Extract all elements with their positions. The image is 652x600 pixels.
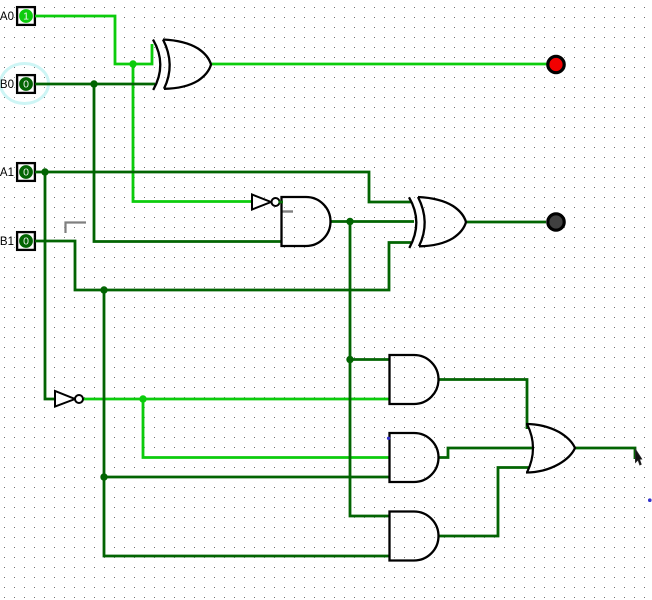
svg-text:0: 0 [23,236,29,248]
unconnected grey input leg on AND U3 [282,210,293,212]
wire branch B0 down to AND U3 bottom input (value 0) [94,84,281,242]
OR gate U9 (carry out) [526,424,575,473]
junction (45,172) [41,168,48,175]
wire A1 to XOR U4 top input (value 0) [35,172,411,202]
junction (350,359.5) [346,356,353,363]
wire AND U6 output to OR U9 middle input (value 0) [438,448,533,458]
svg-text:B0: B0 [0,79,14,91]
wire to AND U6 bottom input (value 0) [104,476,390,479]
wire AND U7 output to OR U9 bottom input (value 0) [438,468,529,537]
wire branch A1 down to NOT U8 input (value 0) [45,172,56,399]
AND gate U5 [390,355,439,404]
unconnected grey wire stub near B1 [66,223,87,234]
selection halo around pin B0 [1,64,49,104]
XOR gate U1 (half-adder sum) [153,40,211,91]
wire A0 to XOR U1 top input (value 1) [35,16,152,64]
input pin B0 [0,75,35,93]
wire AND U5 output to OR U9 top input (value 0) [438,380,527,430]
AND gate U7 [390,512,439,561]
wire OR U9 output (value 0) [575,448,635,459]
wire branch B1 down to AND U7 bottom input (value 0) [104,290,390,556]
LED S0 (lit, red) [548,56,564,72]
junction (104,477) [100,473,107,480]
svg-text:B1: B1 [0,236,14,248]
junction (133,64) [129,60,136,67]
wire branch AND U3 output down to AND U7 top input (value 0) [350,222,390,517]
AND gate U6 [390,433,439,482]
input pin A1 [0,163,35,181]
svg-text:A1: A1 [0,167,14,179]
junction (104,290) [100,286,107,293]
NOT gate U8 (inverter on A1 branch) [55,391,83,407]
wire branch A0 down to NOT U2 input (value 1) [133,64,252,202]
input pin B1 [0,232,35,250]
wire B0 to XOR U1 bottom input (value 0) [35,83,155,86]
svg-text:A0: A0 [0,11,14,23]
unconnected blue dot right edge [648,498,652,502]
mouse cursor arrow [635,449,642,465]
junction (143,399) [139,395,146,402]
input pin A0 [0,7,35,25]
unconnected input dot on AND U6 [387,437,390,440]
wire XOR U1 output to LED S0 (value 1) [210,63,547,66]
svg-text:1: 1 [23,11,29,23]
svg-text:0: 0 [23,79,29,91]
XOR gate U4 (sum bit S1) [409,197,466,248]
junction (94,84) [90,80,97,87]
svg-text:0: 0 [23,167,29,179]
wire branch down to AND U6 middle input (value 1) [143,399,389,458]
AND gate U3 [282,197,331,246]
LED S1 (off, dark) [548,214,564,230]
NOT gate U2 (inverter before AND U3) [252,195,280,210]
wire B1 to XOR U4 bottom input (value 0) [35,241,411,290]
wire branch to AND U5 top input (value 0) [350,358,390,361]
wire stub NOT U2 output to AND U3 top input (value 0) [279,201,284,204]
wire NOT U8 output to AND U5 lower input (value 1) [83,398,390,401]
wire XOR U4 output to LED S1 (value 0) [466,221,546,224]
wire AND U3 output to XOR U4 middle input (value 0) [330,220,414,223]
junction (350,221.5) [346,218,353,225]
